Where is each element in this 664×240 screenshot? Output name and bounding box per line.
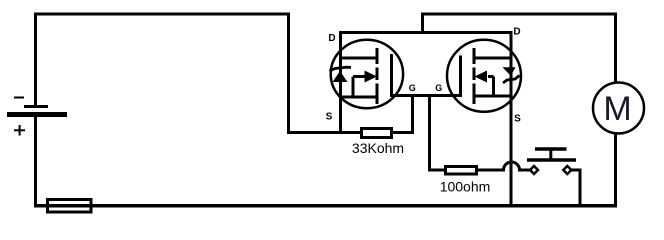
wire battery bottom to rail: [34, 117, 38, 204]
wire battery top to S-node (left loop): [36, 14, 362, 133]
battery B1 positive plate: [7, 112, 67, 117]
push button SW1 handle bar: [535, 147, 567, 151]
mosfet Q1 circle: [331, 40, 403, 108]
svg-text:G: G: [409, 83, 416, 93]
mosfet Q2 source tie: [492, 77, 495, 97]
svg-text:G: G: [435, 83, 442, 93]
svg-text:D: D: [513, 27, 520, 38]
battery minus sign: [14, 97, 24, 99]
wire 33Kohm to gate node: [392, 96, 413, 133]
wire button to rail: [571, 170, 580, 206]
push button SW1 actuator bar: [527, 158, 576, 162]
push button SW1 stem: [549, 149, 552, 160]
svg-text:S: S: [514, 114, 521, 125]
mosfet Q1 gate bar: [390, 54, 393, 97]
wire gate node to 100ohm: [430, 96, 446, 171]
wire motor bottom to rail: [614, 134, 617, 206]
mosfet Q1 source stub: [341, 96, 378, 99]
mosfet Q2 gate bar: [459, 56, 462, 98]
mosfet Q1 body diode cathode bar: [330, 67, 352, 71]
svg-text:100ohm: 100ohm: [440, 179, 491, 195]
wire D-D top link and both MOSFET verticals: [341, 33, 512, 206]
battery B1 negative plate: [24, 105, 48, 108]
wire riser D to motor top: [423, 14, 616, 83]
push button SW1 right contact: [563, 166, 571, 174]
resistor 33Kohm: [362, 129, 392, 138]
battery plus sign: [14, 125, 25, 136]
mosfet Q2 channel segments: [473, 48, 476, 104]
svg-text:M: M: [603, 90, 631, 128]
wire 100ohm to button with hop over S wire: [476, 162, 531, 170]
wire gate-to-gate bus: [392, 94, 461, 97]
mosfet Q1 source tie: [352, 77, 355, 98]
bottom rail wire: [34, 204, 617, 208]
fuse (box on rail): [48, 200, 92, 213]
mosfet Q1 drain stub: [341, 57, 378, 60]
mosfet Q2 body diode triangle: [503, 67, 516, 76]
mosfet Q2 body diode cathode bar: [503, 76, 520, 84]
resistor 100ohm: [446, 167, 477, 175]
mosfet Q2 body arrow: [475, 71, 494, 83]
mosfet Q1 body arrow: [353, 71, 377, 83]
svg-text:D: D: [328, 33, 335, 44]
push button SW1 left contact: [530, 166, 538, 174]
mosfet Q1 body diode triangle: [333, 71, 348, 82]
mosfet Q2 source stub: [474, 95, 511, 98]
mosfet Q2 circle: [447, 40, 521, 112]
svg-text:33Kohm: 33Kohm: [352, 140, 404, 156]
mosfet Q1 channel segments: [376, 48, 379, 104]
svg-text:S: S: [326, 112, 333, 123]
motor M1 circle: [593, 83, 644, 134]
mosfet Q2 drain stub: [474, 57, 511, 60]
